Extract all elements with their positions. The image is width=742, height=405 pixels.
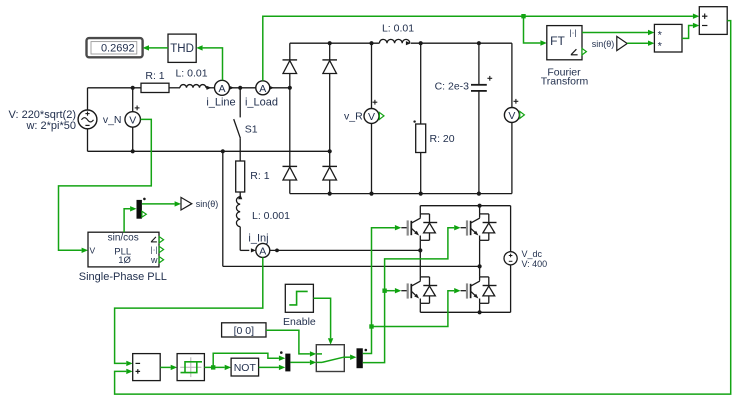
transistor Q2 top-right (461, 214, 497, 240)
svg-text:w: 2*pi*50: w: 2*pi*50 (25, 120, 76, 132)
svg-text:V: V (508, 110, 515, 122)
transistor Q3 bottom-left (401, 277, 437, 303)
wire NOT to mux lower (259, 366, 279, 368)
svg-text:v_R: v_R (344, 111, 363, 123)
svg-text:Single-Phase PLL: Single-Phase PLL (79, 271, 167, 283)
svg-text:A: A (218, 83, 225, 95)
wire bottom neutral rail (88, 150, 330, 152)
wire switch to mux bar2 (343, 356, 350, 358)
svg-text:v_N: v_N (103, 114, 122, 126)
transistor Q4 bottom-right (461, 277, 497, 303)
wire i_Line meter to THD (203, 48, 223, 80)
svg-text:L: 0.01: L: 0.01 (382, 23, 414, 35)
wire THD to display (149, 47, 168, 49)
svg-text:w: w (150, 255, 158, 265)
capacitor C: 2e-3 (478, 43, 480, 84)
diode D2 (322, 60, 337, 74)
wire from resistor to inductor (169, 87, 180, 89)
svg-text:sin/cos: sin/cos (108, 233, 139, 244)
transistor Q1 top-left (401, 214, 437, 240)
node dot bridge leg1 mid (288, 86, 292, 90)
svg-text:0.2692: 0.2692 (101, 43, 135, 55)
dc top rail (290, 42, 380, 44)
block comparator (133, 354, 161, 381)
block constant [0 0] (222, 323, 266, 337)
hbridge top rail (420, 205, 510, 207)
inductor L: 0.01 (dc) (379, 39, 409, 43)
wire comparator to relay (160, 366, 171, 368)
node dots hbridge (478, 204, 482, 208)
wire mux bar1 to switch lower (290, 361, 310, 363)
display 0.2692 (87, 38, 143, 57)
mux bar2 (357, 348, 363, 368)
svg-text:*: * (658, 40, 663, 52)
svg-text:R: 20: R: 20 (430, 133, 455, 145)
dc bottom rail (290, 193, 512, 195)
voltage source V_dc (510, 206, 512, 252)
node dot v_N top (131, 86, 135, 90)
wire constant to switch upper (266, 330, 310, 354)
svg-text:sin(θ): sin(θ) (592, 39, 615, 49)
svg-text:i_Line: i_Line (206, 96, 235, 108)
resistor R: 1 (injection) (236, 161, 245, 192)
svg-text:Enable: Enable (283, 316, 316, 328)
block Single-Phase PLL (88, 232, 159, 267)
wire tag to multiplier (627, 42, 648, 44)
switch S1 (239, 88, 241, 118)
wire i_Load meter up and across top (263, 16, 693, 80)
bridge leg2 (329, 43, 331, 60)
block Enable (step) (285, 284, 313, 312)
block manual switch (316, 345, 344, 372)
svg-text:NOT: NOT (234, 362, 257, 374)
ammeter i_Inj (251, 248, 256, 252)
svg-text:sin(θ): sin(θ) (196, 199, 219, 209)
block NOT (231, 358, 259, 376)
node dot v_N bottom (131, 149, 135, 153)
wire demux to sin tag (142, 203, 175, 205)
svg-text:[0 0]: [0 0] (234, 325, 255, 337)
hbridge legs (419, 206, 421, 214)
wire AC source left stems (87, 88, 89, 110)
wire relay output junction (204, 366, 224, 368)
diode D1 (283, 60, 298, 74)
svg-text:V: V (368, 111, 375, 123)
svg-text:L: 0.01: L: 0.01 (175, 68, 207, 80)
wire inductor to i_Line (206, 87, 215, 89)
wire i_Load to bridge leg1 (270, 87, 290, 89)
inductor L: 0.001 (238, 194, 242, 199)
resistor R: 1 (series) (141, 83, 169, 92)
node dots dc rails (328, 41, 332, 45)
node green junction top (521, 14, 525, 18)
voltage source V AC circle (78, 110, 97, 129)
demux bar (137, 200, 142, 219)
wire i_Line to i_Load (230, 87, 256, 89)
svg-text:Transform: Transform (541, 76, 589, 88)
wire v_N output to PLL (59, 119, 152, 250)
wire sum output feedback loop (115, 21, 731, 395)
svg-text:R: 1: R: 1 (145, 70, 164, 82)
svg-text:A: A (259, 83, 266, 95)
node dot neutral at leg2 (328, 149, 332, 153)
wire neutral down and right mid rail (222, 151, 224, 266)
node dot S1 top (238, 86, 242, 90)
diode D3 (283, 166, 298, 180)
wire to Fourier Transform (524, 16, 541, 43)
svg-text:V_dc: V_dc (522, 249, 543, 259)
node dot neutral to injection rail (221, 149, 225, 153)
svg-text:|·|: |·| (569, 28, 576, 38)
voltmeter v_R (371, 43, 373, 108)
svg-text:1Ø: 1Ø (118, 255, 131, 266)
diode D4 (322, 166, 337, 180)
block sum +- (699, 7, 727, 35)
block FT Fourier Transform (547, 26, 582, 60)
wire gate signal A (top-left and bottom-right) (363, 228, 395, 354)
wire top rail source side (88, 87, 142, 89)
wire relay to mux upper (213, 353, 279, 367)
voltmeter v_N (132, 88, 134, 112)
svg-text:i_Inj: i_Inj (248, 233, 268, 245)
wire i_Inj to H-bridge left mid rail (270, 249, 421, 251)
wire gate signal B (bottom-left and top-right) (363, 228, 454, 363)
svg-text:S1: S1 (245, 124, 258, 136)
voltmeter V (dc bus) (511, 43, 513, 107)
wire PLL sin/cos output to demux (124, 209, 130, 232)
svg-text:C: 2e-3: C: 2e-3 (435, 80, 470, 92)
ammeter i_Line (215, 80, 230, 95)
wire multiplier to sum (682, 26, 693, 39)
mux bar1 (285, 354, 290, 372)
wire Enable to switch control (313, 298, 330, 338)
bridge leg1 (289, 43, 291, 60)
resistor R: 20 (420, 43, 422, 124)
svg-text:|·|: |·| (151, 245, 158, 254)
inductor L: 0.01 (series) (180, 85, 206, 88)
ammeter i_Load (256, 81, 270, 95)
block relay hysteresis (177, 354, 204, 381)
svg-text:L: 0.001: L: 0.001 (252, 210, 290, 222)
svg-text:V: V (90, 246, 96, 256)
THD block (168, 34, 196, 62)
block multiplier (654, 24, 682, 52)
svg-text:V: V (129, 114, 136, 126)
wire FT abs output to multiplier (582, 32, 648, 34)
svg-text:A: A (259, 245, 266, 257)
svg-text:i_Load: i_Load (245, 96, 278, 108)
hbridge bottom rail (420, 311, 510, 313)
svg-text:V: 400: V: 400 (522, 259, 548, 269)
svg-text:THD: THD (170, 43, 194, 55)
svg-text:R: 1: R: 1 (250, 170, 269, 182)
signal tag sin(theta) sink (181, 197, 192, 210)
wire i_Inj meter to comparator minus (115, 257, 263, 363)
svg-text:FT: FT (550, 34, 565, 48)
